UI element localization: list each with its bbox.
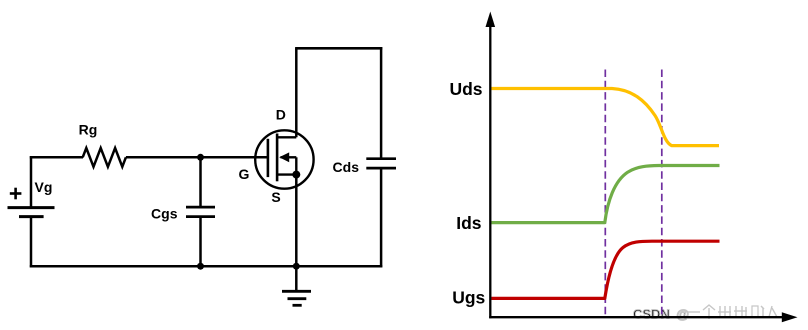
wire bottom rail xyxy=(30,265,383,268)
wire right rail lower xyxy=(380,168,383,267)
dashed timeline t1 xyxy=(604,70,606,318)
wire left rail lower xyxy=(30,217,33,268)
wire resistor to gate xyxy=(126,156,268,159)
svg-text:Uds: Uds xyxy=(449,79,482,99)
一 xyxy=(687,311,700,313)
wire top-left to resistor xyxy=(30,156,83,159)
wire source down xyxy=(295,175,298,267)
svg-text:G: G xyxy=(239,166,250,182)
wire Cgs bottom lead xyxy=(199,217,202,267)
svg-text:Vg: Vg xyxy=(35,179,53,195)
wire right rail upper xyxy=(380,47,383,159)
wire left rail upper xyxy=(30,156,33,208)
node junction body/source xyxy=(292,171,300,179)
svg-text:Rg: Rg xyxy=(79,122,98,138)
ground xyxy=(282,266,311,305)
curve Ids (green) xyxy=(491,166,719,223)
svg-text:Ugs: Ugs xyxy=(452,288,485,308)
wire Cgs top lead xyxy=(199,157,202,207)
svg-text:Ids: Ids xyxy=(456,213,482,233)
voltage source Vg (battery) xyxy=(8,188,55,217)
y-axis xyxy=(489,24,491,318)
wire drain up xyxy=(295,48,298,137)
纯 xyxy=(719,306,721,318)
的 xyxy=(752,306,758,317)
x-axis xyxy=(489,316,784,318)
curve Ugs (red) xyxy=(491,241,719,298)
svg-text:Cds: Cds xyxy=(333,159,360,175)
svg-text:D: D xyxy=(276,107,286,123)
wire top rail xyxy=(295,47,382,50)
curve Uds (yellow) xyxy=(491,89,719,146)
resistor Rg xyxy=(83,148,126,167)
capacitor Cgs xyxy=(186,207,215,217)
watermark CSDN xyxy=(633,305,777,321)
dashed timeline t2 xyxy=(661,70,663,318)
粹 xyxy=(735,306,737,318)
node junction Cgs/bottom rail xyxy=(197,263,204,270)
node junction gate/Cgs xyxy=(197,154,204,161)
svg-text:S: S xyxy=(271,189,280,205)
transistor body arrow xyxy=(279,152,289,162)
svg-text:Cgs: Cgs xyxy=(151,206,178,222)
人 xyxy=(769,306,772,317)
capacitor Cds xyxy=(366,159,396,168)
transistor Q1 N-MOSFET xyxy=(255,130,313,188)
个 xyxy=(703,305,715,310)
node junction source/bottom rail xyxy=(293,263,300,270)
